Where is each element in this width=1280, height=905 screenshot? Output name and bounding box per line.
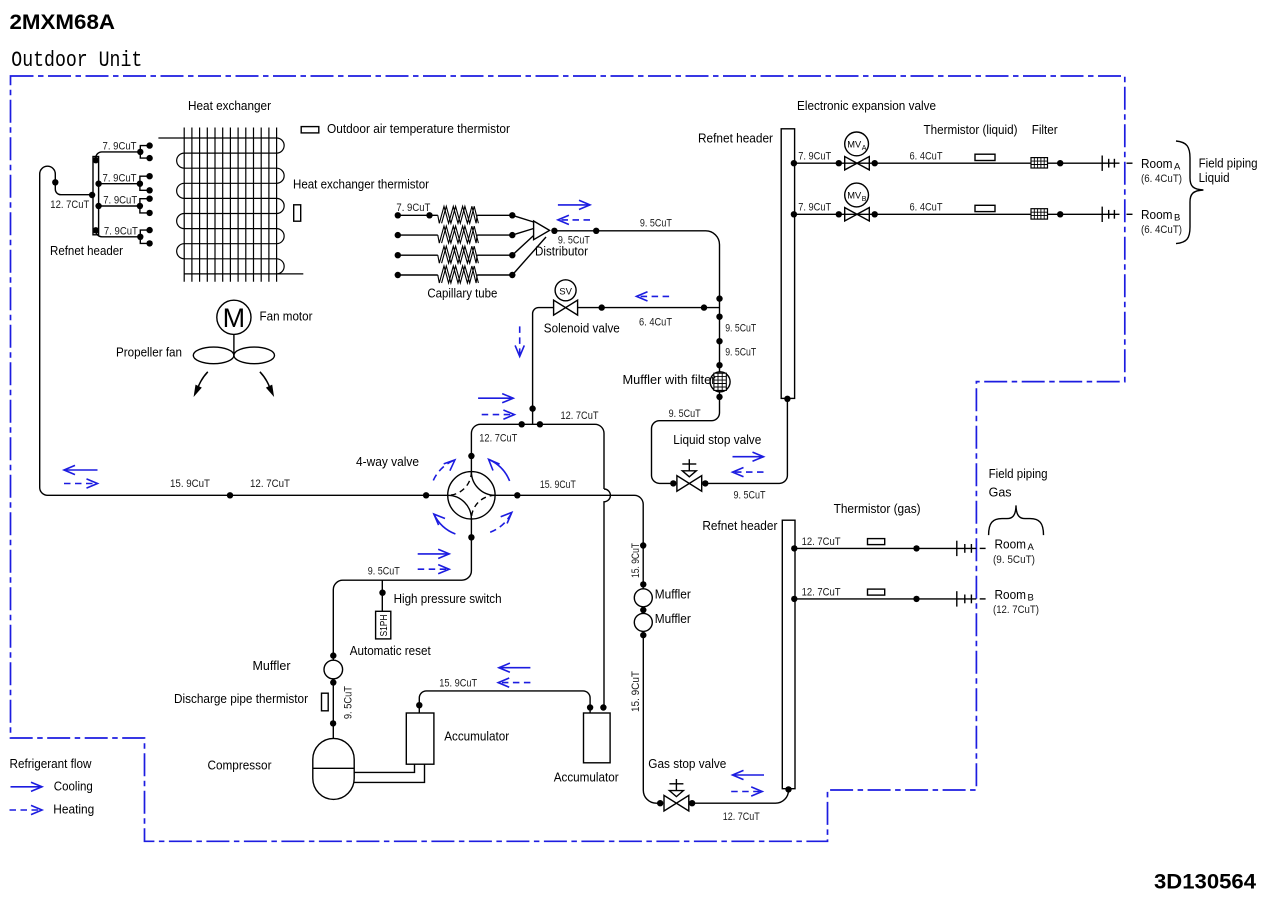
refnet branch 3 (7.9CuT) bbox=[99, 199, 150, 213]
outdoor air temperature thermistor symbol bbox=[301, 127, 319, 133]
svg-text:9. 5CuT: 9. 5CuT bbox=[640, 218, 672, 230]
heat exchanger thermistor symbol bbox=[294, 205, 301, 221]
refnet branch 1 (7.9CuT) bbox=[96, 146, 150, 160]
thermistor liquid symbol B bbox=[975, 205, 995, 211]
capillary tube row 3 bbox=[398, 254, 438, 256]
refnet header (heat exchanger side) bbox=[93, 157, 99, 235]
svg-text:Cooling: Cooling bbox=[54, 780, 93, 794]
svg-text:12. 7CuT: 12. 7CuT bbox=[561, 410, 599, 422]
heating flow arrow (suction) bbox=[498, 682, 530, 684]
svg-text:Filter: Filter bbox=[1032, 123, 1058, 137]
pipe to liquid refnet header bbox=[705, 399, 787, 484]
cooling flow arrow (discharge) bbox=[418, 553, 450, 555]
thermistor liquid symbol A bbox=[975, 154, 995, 160]
cooling flow arrow (12.7 line) bbox=[478, 397, 513, 399]
svg-text:A: A bbox=[1174, 162, 1181, 173]
svg-text:Solenoid valve: Solenoid valve bbox=[544, 322, 620, 336]
svg-text:7. 9CuT: 7. 9CuT bbox=[104, 226, 138, 238]
brace field piping gas bbox=[989, 505, 1044, 535]
svg-text:2MXM68A: 2MXM68A bbox=[10, 11, 116, 34]
svg-text:Propeller fan: Propeller fan bbox=[116, 346, 182, 360]
svg-text:7. 9CuT: 7. 9CuT bbox=[798, 202, 831, 214]
distributor bbox=[534, 221, 550, 240]
filter symbol B bbox=[1031, 209, 1048, 219]
electronic expansion valve MVA bbox=[845, 157, 870, 170]
heating flow arrow (gas line) bbox=[731, 791, 762, 793]
airflow arrow right bbox=[260, 372, 270, 388]
capillary tube row 1 bbox=[398, 214, 438, 216]
propeller fan blades bbox=[193, 347, 234, 364]
svg-text:Liquid stop valve: Liquid stop valve bbox=[673, 433, 761, 447]
svg-text:SV: SV bbox=[559, 286, 572, 297]
heat exchanger serpentine coil bbox=[158, 138, 303, 274]
svg-text:15. 9CuT: 15. 9CuT bbox=[630, 671, 642, 712]
svg-text:Refnet header: Refnet header bbox=[698, 132, 773, 146]
svg-text:Outdoor air temperature thermi: Outdoor air temperature thermistor bbox=[327, 122, 510, 136]
fan shaft bbox=[233, 334, 235, 355]
svg-text:Room: Room bbox=[1141, 208, 1173, 222]
svg-text:12. 7CuT: 12. 7CuT bbox=[250, 478, 290, 490]
gas branch Room A: pipe bbox=[795, 547, 957, 549]
pipe to gas refnet header bbox=[692, 789, 788, 803]
svg-text:12. 7CuT: 12. 7CuT bbox=[802, 536, 841, 548]
cooling flow arrow (suction) bbox=[499, 667, 531, 669]
muffler with filter bbox=[710, 372, 730, 392]
pipe muffler to compressor bbox=[332, 679, 334, 739]
discharge pipe thermistor symbol bbox=[322, 693, 329, 711]
svg-text:A: A bbox=[1028, 542, 1035, 553]
svg-text:M: M bbox=[223, 303, 246, 333]
svg-text:12. 7CuT: 12. 7CuT bbox=[723, 811, 760, 823]
heating flow arrow (12.7 line) bbox=[482, 414, 515, 416]
gas branch Room B: pipe bbox=[795, 598, 957, 600]
svg-text:3D130564: 3D130564 bbox=[1154, 871, 1256, 894]
4-way valve flow arrows bbox=[489, 459, 510, 481]
cooling flow arrow (liquid line) bbox=[733, 456, 764, 458]
svg-text:MV: MV bbox=[847, 191, 862, 201]
svg-text:7. 9CuT: 7. 9CuT bbox=[798, 151, 831, 163]
muffler upper bbox=[634, 589, 652, 607]
svg-text:4-way valve: 4-way valve bbox=[356, 455, 419, 469]
heat exchanger fins bbox=[184, 128, 276, 282]
svg-text:(12. 7CuT): (12. 7CuT) bbox=[993, 604, 1039, 616]
svg-text:MV: MV bbox=[847, 139, 862, 149]
heating flow arrow (into solenoid branch, down) bbox=[519, 326, 521, 356]
legend cooling arrow bbox=[11, 786, 43, 788]
refnet branch 4 (7.9CuT) bbox=[96, 230, 150, 243]
svg-text:Muffler: Muffler bbox=[655, 588, 691, 602]
muffler lower bbox=[634, 613, 652, 631]
svg-text:9. 5CuT: 9. 5CuT bbox=[368, 566, 400, 578]
heating flow arrow (distributor out) bbox=[558, 219, 590, 221]
electronic expansion valve MVB bbox=[845, 208, 870, 221]
fan motor M bbox=[217, 300, 251, 334]
flare union liquid B bbox=[1101, 207, 1103, 222]
legend heating arrow bbox=[10, 809, 43, 811]
flare union liquid A bbox=[1101, 156, 1103, 171]
svg-text:Distributor: Distributor bbox=[535, 244, 588, 258]
cooling flow arrow (distributor out) bbox=[558, 204, 590, 206]
svg-text:9. 5CuT: 9. 5CuT bbox=[669, 408, 701, 420]
svg-text:Thermistor (liquid): Thermistor (liquid) bbox=[924, 123, 1018, 137]
refnet branch 2 (7.9CuT) bbox=[99, 176, 150, 190]
svg-text:7. 9CuT: 7. 9CuT bbox=[103, 195, 137, 207]
airflow arrow left bbox=[198, 372, 208, 388]
svg-text:Thermistor (gas): Thermistor (gas) bbox=[834, 502, 921, 516]
pipe 9.5CuT to liquid stop valve bbox=[652, 392, 720, 484]
4-way valve body bbox=[448, 472, 495, 519]
svg-text:Muffler with filter: Muffler with filter bbox=[623, 373, 716, 387]
svg-text:Heat exchanger thermistor: Heat exchanger thermistor bbox=[293, 178, 429, 192]
pipe 9.5CuT distributor to filter column bbox=[554, 231, 719, 299]
accumulator 1 bbox=[406, 713, 434, 764]
svg-text:15. 9CuT: 15. 9CuT bbox=[439, 677, 477, 689]
svg-text:9. 5CuT: 9. 5CuT bbox=[734, 489, 766, 501]
svg-text:B: B bbox=[862, 196, 867, 203]
svg-text:Automatic reset: Automatic reset bbox=[350, 644, 431, 658]
svg-text:Fan motor: Fan motor bbox=[260, 310, 313, 324]
pipe 15.9CuT 4-way valve right bbox=[495, 495, 643, 589]
pipe accumulator1 top bbox=[419, 691, 590, 713]
thermistor gas symbol B bbox=[868, 589, 885, 595]
svg-text:6. 4CuT: 6. 4CuT bbox=[639, 317, 672, 329]
svg-text:Outdoor Unit: Outdoor Unit bbox=[11, 47, 142, 73]
compressor bbox=[313, 738, 354, 799]
pipe 9.5CuT column bbox=[719, 299, 721, 372]
svg-text:Heating: Heating bbox=[53, 803, 94, 817]
svg-text:B: B bbox=[1174, 213, 1180, 224]
svg-text:12. 7CuT: 12. 7CuT bbox=[479, 433, 517, 445]
capillary tube row 4 bbox=[398, 274, 438, 276]
svg-text:Accumulator: Accumulator bbox=[444, 730, 509, 744]
svg-text:7. 9CuT: 7. 9CuT bbox=[103, 172, 137, 184]
pipe 9.5CuT discharge (4-way to compressor) bbox=[333, 519, 471, 661]
svg-text:High pressure switch: High pressure switch bbox=[394, 592, 502, 606]
svg-text:(6. 4CuT): (6. 4CuT) bbox=[1141, 224, 1182, 236]
svg-text:(6. 4CuT): (6. 4CuT) bbox=[1141, 173, 1182, 185]
gas stop valve bbox=[664, 795, 689, 811]
svg-text:7. 9CuT: 7. 9CuT bbox=[103, 141, 137, 153]
svg-text:15. 9CuT: 15. 9CuT bbox=[630, 543, 642, 578]
svg-text:Room: Room bbox=[1141, 157, 1173, 171]
brace field piping liquid bbox=[1176, 141, 1203, 244]
pipe 6.4CuT solenoid left leg bbox=[533, 308, 554, 425]
svg-text:9. 5CuT: 9. 5CuT bbox=[558, 234, 590, 246]
svg-text:Room: Room bbox=[995, 588, 1027, 602]
svg-text:Liquid: Liquid bbox=[1199, 171, 1230, 185]
high pressure switch S1PH bbox=[376, 611, 391, 639]
heating flow arrow (6.4CuT) bbox=[637, 295, 670, 297]
svg-text:6. 4CuT: 6. 4CuT bbox=[910, 202, 943, 214]
flare union gas A bbox=[956, 541, 958, 556]
svg-text:Heat exchanger: Heat exchanger bbox=[188, 99, 271, 113]
heating flow arrow (left main) bbox=[64, 483, 98, 485]
svg-text:15. 9CuT: 15. 9CuT bbox=[170, 478, 210, 490]
svg-text:B: B bbox=[1028, 593, 1034, 604]
svg-text:Refnet header: Refnet header bbox=[50, 244, 123, 258]
svg-text:A: A bbox=[862, 145, 867, 152]
svg-text:Discharge pipe thermistor: Discharge pipe thermistor bbox=[174, 692, 308, 706]
svg-text:Gas: Gas bbox=[989, 486, 1012, 500]
pipe crossing hop bbox=[604, 489, 610, 708]
svg-text:Field piping: Field piping bbox=[989, 467, 1048, 481]
cooling flow arrow (gas line) bbox=[733, 774, 765, 776]
svg-text:9. 5CuT: 9. 5CuT bbox=[342, 686, 354, 719]
pipe 15.9CuT to gas stop valve bbox=[643, 631, 660, 803]
high pressure switch stub bbox=[381, 580, 383, 611]
suction pipe compressor loop bbox=[354, 764, 425, 782]
svg-text:Gas stop valve: Gas stop valve bbox=[648, 757, 726, 771]
svg-text:Refnet header: Refnet header bbox=[702, 519, 777, 533]
svg-text:12. 7CuT: 12. 7CuT bbox=[50, 199, 89, 211]
liquid branch Room B: pipe bbox=[795, 213, 1103, 215]
distributor feed lines bbox=[512, 215, 533, 222]
4-way valve internal passages bbox=[471, 472, 495, 496]
muffler (discharge) bbox=[324, 660, 343, 679]
svg-text:Muffler: Muffler bbox=[655, 612, 691, 626]
svg-text:7. 9CuT: 7. 9CuT bbox=[396, 202, 430, 214]
svg-text:Accumulator: Accumulator bbox=[554, 771, 619, 785]
svg-text:Capillary tube: Capillary tube bbox=[427, 287, 497, 301]
heating flow arrow (discharge) bbox=[418, 568, 450, 570]
svg-text:9. 5CuT: 9. 5CuT bbox=[725, 322, 756, 334]
heating flow arrow (liquid line) bbox=[733, 471, 764, 473]
liquid stop valve bbox=[677, 476, 702, 492]
pipe 12.7CuT 4-way valve top bbox=[471, 424, 604, 489]
svg-text:Refrigerant flow: Refrigerant flow bbox=[10, 757, 93, 771]
accumulator 2 bbox=[584, 713, 611, 763]
liquid branch Room A: pipe bbox=[795, 162, 1103, 164]
cooling flow arrow (left main) bbox=[64, 469, 98, 471]
svg-text:12. 7CuT: 12. 7CuT bbox=[802, 586, 841, 598]
svg-text:Room: Room bbox=[995, 538, 1027, 552]
svg-text:(9. 5CuT): (9. 5CuT) bbox=[993, 554, 1035, 566]
feed pipe 12.7CuT from main line bbox=[40, 166, 92, 487]
svg-text:Muffler: Muffler bbox=[253, 659, 291, 673]
svg-text:15. 9CuT: 15. 9CuT bbox=[540, 479, 576, 491]
unit boundary border bbox=[11, 76, 1125, 841]
thermistor gas symbol A bbox=[868, 539, 885, 545]
svg-text:Electronic expansion valve: Electronic expansion valve bbox=[797, 99, 936, 113]
refnet header (liquid) bbox=[781, 129, 794, 399]
capillary tube row 2 bbox=[398, 234, 438, 236]
refnet header (gas) bbox=[782, 520, 795, 789]
filter symbol A bbox=[1031, 158, 1048, 168]
svg-text:9. 5CuT: 9. 5CuT bbox=[725, 346, 756, 358]
solenoid valve SV bbox=[555, 280, 576, 301]
svg-text:6. 4CuT: 6. 4CuT bbox=[910, 151, 943, 163]
svg-text:Field piping: Field piping bbox=[1199, 157, 1258, 171]
main suction pipe left (15.9/12.7CuT) bbox=[40, 488, 448, 496]
flare union gas B bbox=[956, 591, 958, 606]
svg-text:S1PH: S1PH bbox=[379, 615, 390, 637]
pipe 6.4CuT solenoid right leg bbox=[578, 307, 720, 309]
svg-text:Compressor: Compressor bbox=[208, 759, 272, 773]
